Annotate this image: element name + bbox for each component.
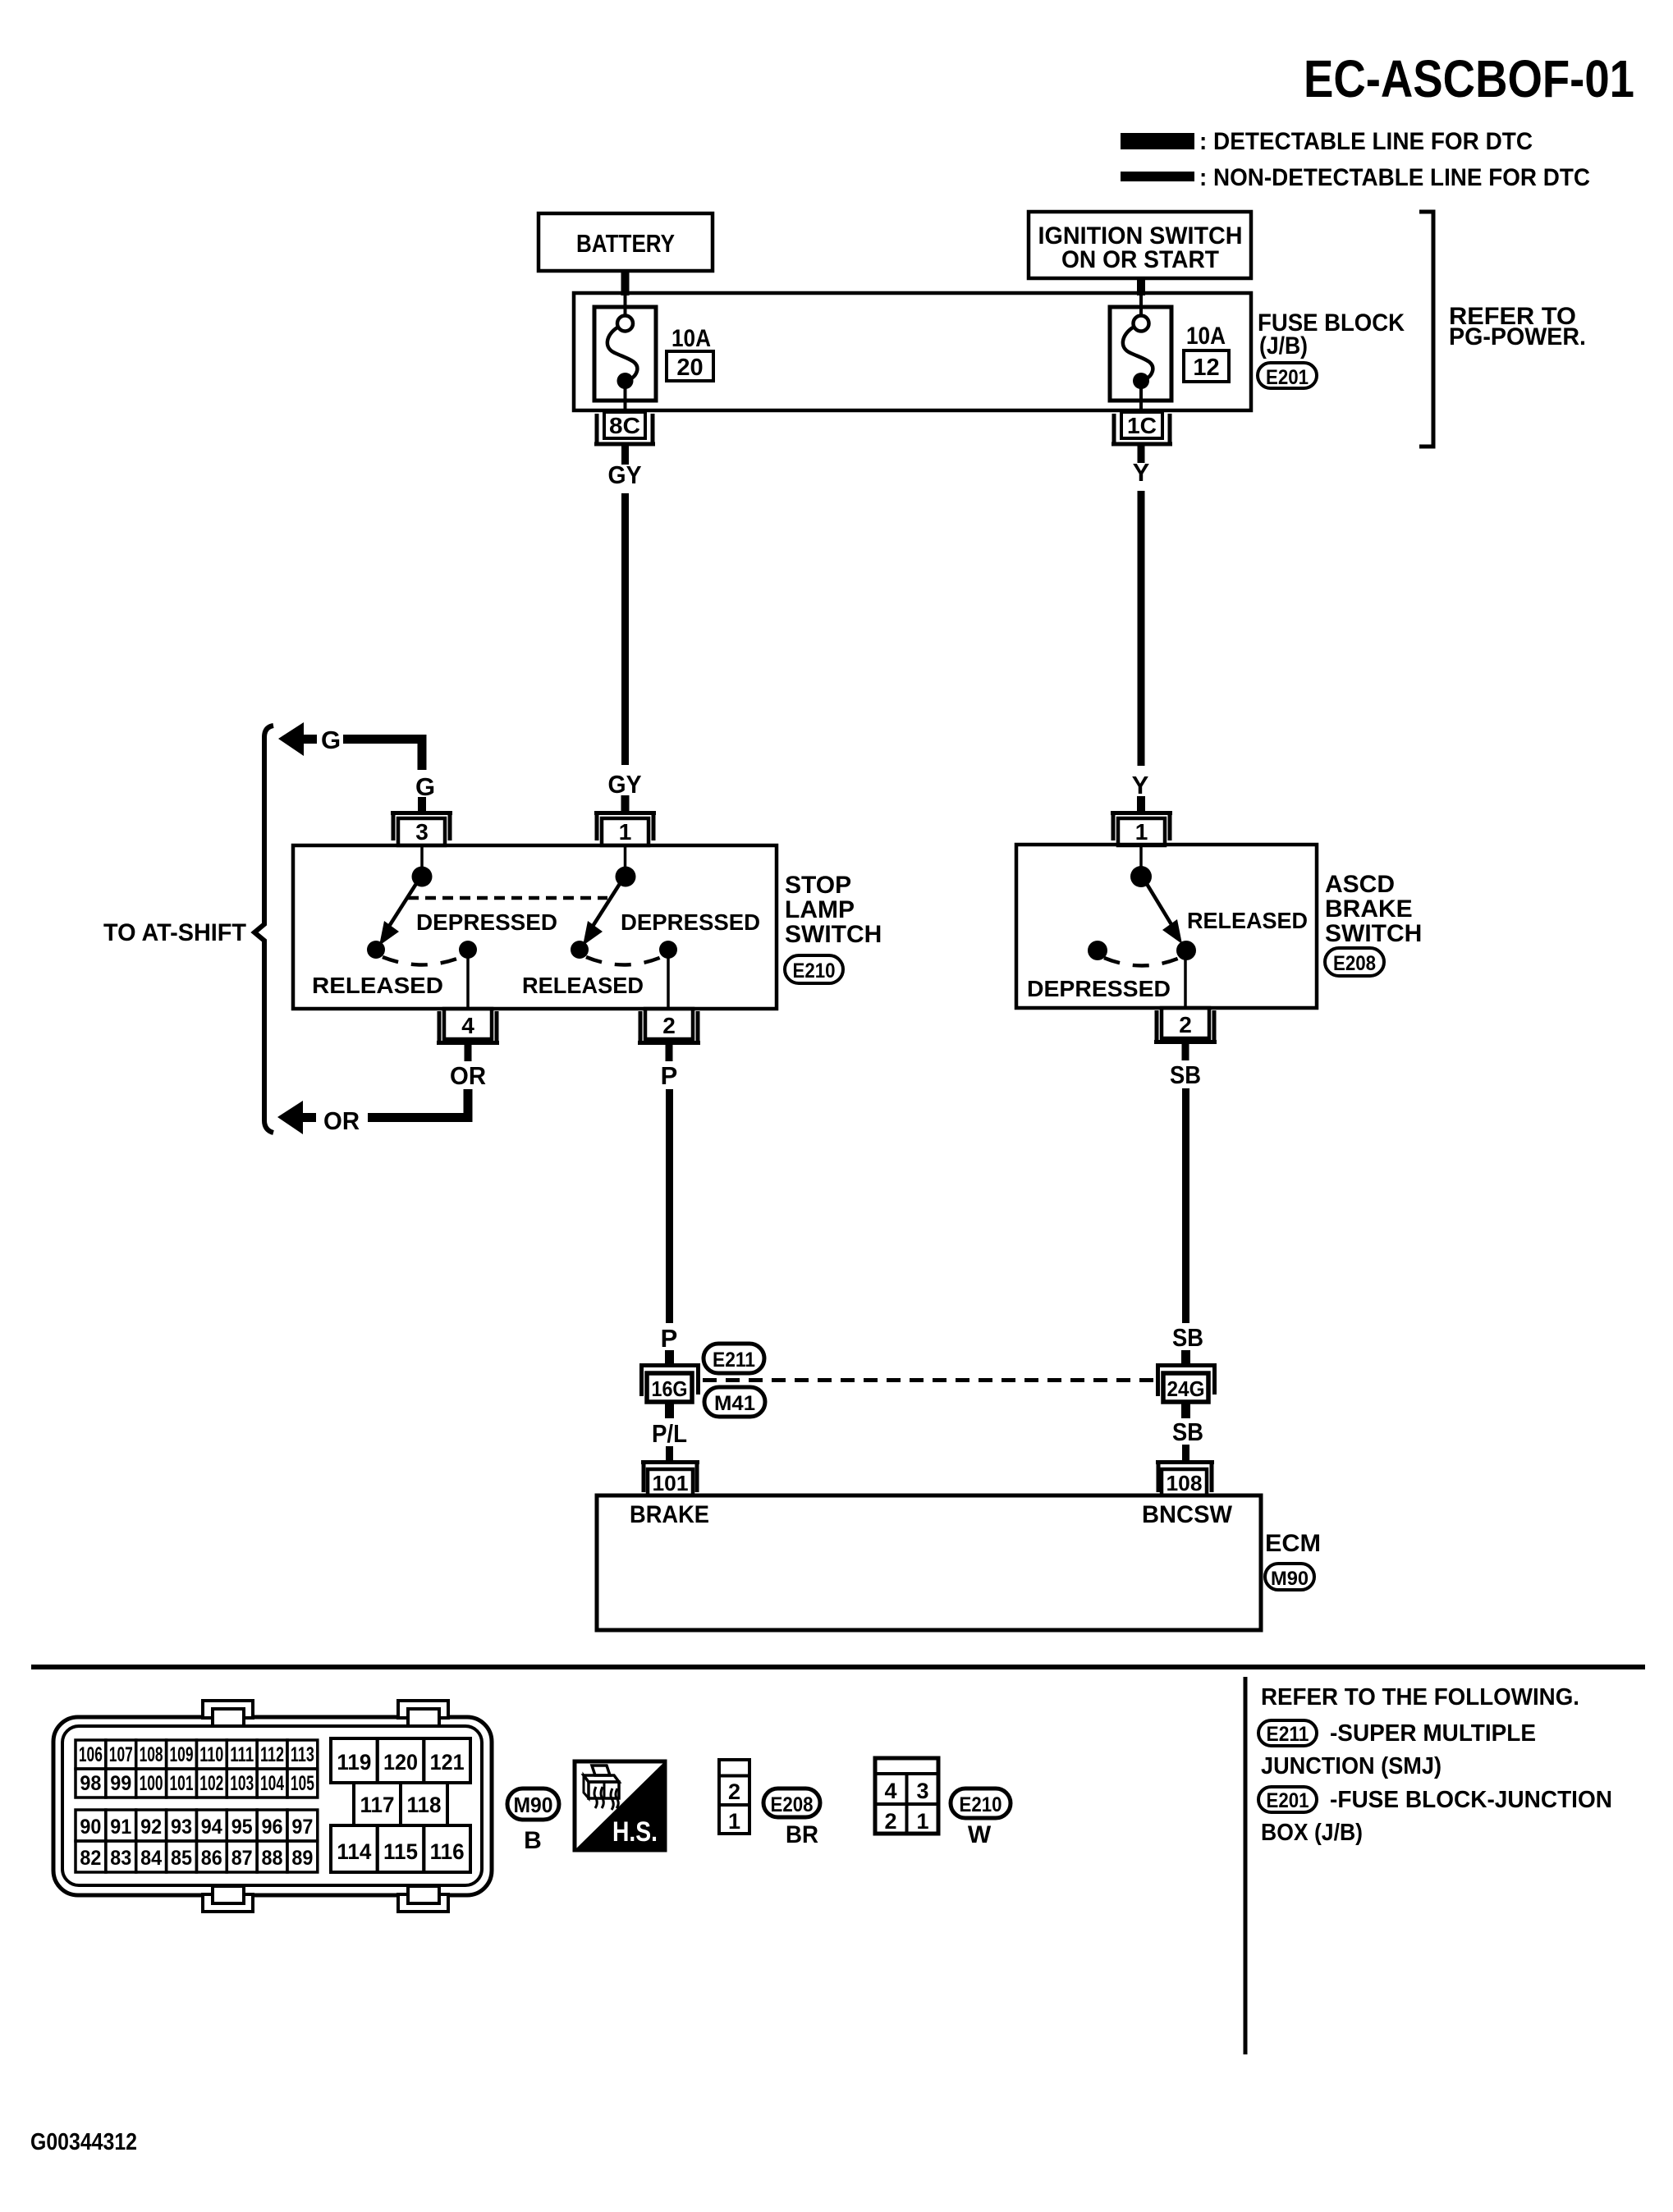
connector ref E210 oval	[785, 955, 843, 983]
svg-text:REFER TO THE FOLLOWING.: REFER TO THE FOLLOWING.	[1261, 1684, 1579, 1711]
fuse 12 S-curve	[1123, 327, 1153, 381]
svg-text:BRAKE: BRAKE	[630, 1501, 709, 1528]
svg-text:ON OR START: ON OR START	[1061, 246, 1219, 273]
connector pin 101 cup	[641, 1462, 699, 1492]
svg-text:-SUPER MULTIPLE: -SUPER MULTIPLE	[1330, 1720, 1536, 1747]
svg-text:116: 116	[430, 1839, 465, 1864]
ECM connector pin row 98-105	[76, 1769, 106, 1798]
fuse 12 wire out	[1139, 381, 1143, 412]
connector pin 101 box	[648, 1469, 693, 1495]
svg-text:SWITCH: SWITCH	[785, 921, 882, 948]
ECM connector drawing: outer shell	[53, 1717, 492, 1895]
connector pin 2 cup (ASCD)	[1154, 1010, 1217, 1042]
svg-text:86: 86	[201, 1847, 222, 1870]
svg-text:BOX (J/B): BOX (J/B)	[1261, 1820, 1363, 1846]
svg-text:115: 115	[383, 1839, 418, 1864]
connector ref E201 oval	[1258, 363, 1317, 388]
stop lamp switch: common dot right	[616, 867, 636, 887]
svg-text:P/L: P/L	[652, 1419, 687, 1448]
wire P stub below pin 2	[666, 1043, 673, 1061]
svg-text:(J/B): (J/B)	[1259, 332, 1308, 360]
connector 8C box	[604, 412, 645, 438]
connector pin 1 cup (stop lamp)	[594, 813, 656, 840]
svg-text:RELEASED: RELEASED	[312, 973, 443, 998]
svg-text:97: 97	[291, 1816, 313, 1839]
svg-text:BATTERY: BATTERY	[576, 229, 675, 258]
vertical divider line	[1244, 1677, 1248, 2054]
svg-text:4: 4	[884, 1779, 896, 1803]
svg-text:-FUSE BLOCK-JUNCTION: -FUSE BLOCK-JUNCTION	[1330, 1787, 1612, 1813]
svg-text:2: 2	[662, 1013, 676, 1038]
svg-text:SWITCH: SWITCH	[1325, 920, 1422, 947]
ASCD brake switch box	[1016, 845, 1317, 1008]
ECM connector tab bottom-left	[203, 1894, 253, 1912]
wire battery to fuse block (thick)	[621, 271, 630, 295]
arrow OR to AT-SHIFT	[277, 1101, 303, 1134]
SMJ dashed line 16G to 24G	[703, 1378, 1155, 1382]
svg-text:E210: E210	[793, 959, 836, 982]
svg-text:8C: 8C	[609, 413, 640, 438]
stop lamp switch: lead to pin 4	[466, 957, 470, 1009]
connector 1C box	[1121, 412, 1162, 438]
svg-text:108: 108	[1167, 1471, 1203, 1495]
ECM connector drawing: inner shell	[62, 1726, 482, 1885]
svg-text:16G: 16G	[652, 1376, 688, 1401]
wire SB stub below 24G	[1181, 1402, 1190, 1418]
arrow G to AT-SHIFT	[278, 722, 304, 756]
wire GY stub below 8C	[621, 444, 629, 465]
fuse 20 wire out	[624, 381, 627, 412]
stop lamp switch: right released contact dot	[571, 941, 589, 959]
svg-text:SB: SB	[1170, 1060, 1201, 1089]
ECM connector tab top-right	[398, 1701, 448, 1718]
svg-text:1: 1	[728, 1809, 740, 1834]
brace TO AT-SHIFT	[254, 726, 273, 1133]
stop lamp switch: lead from pin 1	[624, 845, 627, 868]
svg-text:98: 98	[80, 1772, 101, 1795]
wire G (thick L)	[343, 740, 422, 771]
ECM connector pin row 82-89	[76, 1841, 106, 1872]
wire SB stub to 24G	[1181, 1350, 1190, 1366]
wire G stub to pin 3	[418, 797, 426, 812]
ASCD switch: lead to pin 2	[1184, 958, 1187, 1008]
connector 16G box	[647, 1373, 692, 1402]
ECM connector tab bottom-right	[398, 1894, 448, 1912]
connector 24G box	[1163, 1373, 1208, 1402]
fuse 20 bottom dot	[617, 373, 634, 389]
stop lamp switch: right depressed contact dot	[659, 941, 677, 959]
svg-text:92: 92	[140, 1816, 162, 1839]
fuse 20 top circle	[617, 316, 633, 332]
svg-text:E211: E211	[713, 1349, 755, 1372]
fuse 12 top circle	[1134, 316, 1149, 332]
svg-text:90: 90	[80, 1816, 101, 1839]
svg-text:H.S.: H.S.	[612, 1816, 658, 1848]
wire P/L stub below 16G	[665, 1402, 674, 1418]
svg-text:93: 93	[171, 1816, 192, 1839]
svg-text:G: G	[415, 772, 435, 801]
svg-text:GY: GY	[608, 770, 642, 799]
stop lamp switch: right dashed arc	[586, 957, 662, 965]
svg-text:PG-POWER.: PG-POWER.	[1449, 323, 1586, 350]
svg-text:100: 100	[140, 1772, 163, 1795]
legend detectable bar	[1121, 133, 1194, 149]
stop lamp switch: lead from pin 3	[420, 845, 424, 868]
connector 16G bracket	[639, 1365, 700, 1396]
svg-text:STOP: STOP	[785, 872, 851, 899]
svg-text:JUNCTION (SMJ): JUNCTION (SMJ)	[1261, 1753, 1442, 1779]
wire P stub to 16G	[665, 1350, 674, 1366]
svg-text:1C: 1C	[1127, 413, 1157, 438]
connector ref E211 oval (note)	[1258, 1720, 1317, 1746]
svg-text:ECM: ECM	[1265, 1530, 1321, 1557]
stop lamp switch: left depressed contact dot	[459, 941, 477, 959]
svg-text:2: 2	[728, 1779, 740, 1804]
svg-text:108: 108	[140, 1743, 163, 1766]
connector pin 1 box (ASCD)	[1118, 818, 1165, 845]
svg-text:102: 102	[199, 1772, 223, 1795]
svg-text:121: 121	[430, 1750, 465, 1775]
svg-text:101: 101	[170, 1772, 194, 1795]
stop lamp switch: mechanical link dashed	[408, 896, 607, 900]
svg-text:DEPRESSED: DEPRESSED	[621, 909, 760, 935]
connector pin 108 cup	[1156, 1462, 1214, 1492]
connector ref M41 oval	[704, 1387, 765, 1417]
connector pin 2 box (ASCD)	[1162, 1008, 1209, 1038]
svg-text:88: 88	[262, 1847, 283, 1870]
svg-text:B: B	[524, 1827, 542, 1854]
svg-text:2: 2	[1179, 1012, 1192, 1037]
svg-text:DEPRESSED: DEPRESSED	[416, 909, 557, 935]
svg-text:111: 111	[230, 1743, 254, 1766]
ASCD switch: lead from pin 1	[1139, 845, 1143, 868]
stop lamp switch: left dashed arc	[383, 957, 461, 965]
fuse 12 number box	[1184, 350, 1229, 382]
ASCD switch: common dot	[1130, 866, 1152, 887]
svg-text:M41: M41	[714, 1392, 755, 1415]
svg-text:TO AT-SHIFT: TO AT-SHIFT	[103, 919, 246, 946]
H.S. logo connector icon	[592, 1765, 610, 1775]
connector 1C cup	[1112, 414, 1172, 444]
wire Y stub to pin 1	[1137, 796, 1145, 812]
svg-text:99: 99	[110, 1772, 131, 1795]
svg-text:E201: E201	[1266, 366, 1309, 389]
connector ref E208 oval	[1325, 948, 1384, 976]
svg-text:4: 4	[461, 1013, 474, 1038]
svg-text:BR: BR	[786, 1821, 818, 1848]
H.S. logo black triangle	[575, 1761, 665, 1850]
fuse block (J/B) outline	[574, 293, 1251, 410]
svg-text:110: 110	[199, 1743, 223, 1766]
connector 8C cup	[594, 414, 655, 444]
svg-text:P: P	[661, 1061, 678, 1090]
connector ref E201 oval (note)	[1258, 1787, 1317, 1812]
wire OR (thick L)	[368, 1089, 468, 1118]
svg-text:GY: GY	[608, 460, 642, 489]
stop lamp switch: left released contact dot	[367, 941, 385, 959]
bracket refer to pg-power	[1419, 212, 1433, 447]
svg-text:2: 2	[884, 1809, 896, 1834]
ECM connector pin row 119-121	[331, 1738, 378, 1783]
svg-text:95: 95	[231, 1816, 253, 1839]
battery box	[539, 213, 713, 271]
connector pin 1 box (stop lamp)	[602, 818, 649, 845]
svg-text:W: W	[968, 1821, 992, 1848]
svg-text:G: G	[321, 726, 341, 754]
fuse 20 number box	[667, 351, 713, 381]
svg-text:1: 1	[1135, 819, 1148, 845]
fuse 20 S-curve	[607, 327, 638, 381]
svg-text:BRAKE: BRAKE	[1325, 895, 1413, 923]
connector pin 108 box	[1162, 1469, 1207, 1495]
svg-text:1: 1	[619, 819, 632, 845]
svg-text:109: 109	[170, 1743, 194, 1766]
svg-text:BNCSW: BNCSW	[1142, 1501, 1233, 1528]
wire SB long run	[1182, 1088, 1189, 1323]
svg-text:118: 118	[407, 1793, 442, 1817]
svg-text:E210: E210	[960, 1793, 1002, 1816]
fuse 12 box	[1110, 307, 1171, 401]
wire SB stub below pin 2	[1182, 1042, 1189, 1060]
svg-text:20: 20	[676, 355, 703, 381]
svg-text:E208: E208	[771, 1793, 814, 1816]
svg-text:112: 112	[260, 1743, 284, 1766]
svg-text:12: 12	[1193, 355, 1219, 381]
ignition switch box	[1029, 212, 1251, 278]
svg-text:OR: OR	[323, 1106, 360, 1135]
svg-text:M90: M90	[514, 1793, 553, 1817]
fuse 20 element: wire in	[624, 293, 627, 316]
svg-text:83: 83	[110, 1847, 131, 1870]
fuse 20 box	[594, 307, 656, 401]
svg-text:Y: Y	[1132, 771, 1149, 799]
connector E210 pin box (4/3/2/1)	[875, 1758, 938, 1834]
svg-text:1: 1	[916, 1809, 928, 1834]
wire GY stub to pin 1	[621, 795, 630, 812]
ASCD switch: dashed arc	[1104, 958, 1180, 966]
svg-text:LAMP: LAMP	[785, 896, 855, 923]
ECM box	[597, 1495, 1261, 1630]
svg-text:24G: 24G	[1167, 1376, 1205, 1401]
connector pin 3 box	[398, 818, 445, 845]
svg-text:G00344312: G00344312	[30, 2129, 137, 2155]
svg-text:SB: SB	[1172, 1323, 1203, 1352]
fuse 12 element: wire in	[1139, 293, 1143, 316]
stop lamp switch: right arm with arrow	[592, 880, 622, 927]
ECM connector pin row 106-113	[76, 1740, 106, 1769]
svg-text:119: 119	[337, 1750, 371, 1775]
wire P/L stub to 101	[666, 1446, 673, 1462]
H.S. logo square	[575, 1761, 665, 1850]
stop lamp switch: left arm with arrow	[388, 880, 419, 927]
svg-text:120: 120	[383, 1750, 418, 1775]
connector 24G bracket	[1156, 1365, 1217, 1396]
connector pin 1 cup (ASCD)	[1111, 813, 1172, 840]
svg-text:10A: 10A	[1186, 323, 1226, 350]
ECM connector pin row 117-118	[354, 1783, 401, 1825]
svg-text:114: 114	[337, 1839, 371, 1864]
connector ref E211 oval	[704, 1344, 764, 1373]
svg-text:96: 96	[262, 1816, 283, 1839]
ECM connector pin row 114-116	[331, 1825, 378, 1872]
svg-text:101: 101	[653, 1471, 689, 1495]
ECM connector tab top-left	[203, 1701, 253, 1718]
svg-text:94: 94	[201, 1816, 222, 1839]
connector E208 pin box (2/1)	[719, 1760, 749, 1834]
svg-text:87: 87	[231, 1847, 253, 1870]
connector ref E208 oval (bottom)	[763, 1788, 820, 1817]
horizontal separator line	[31, 1665, 1645, 1669]
legend non-detectable bar	[1121, 172, 1194, 181]
svg-text:: DETECTABLE LINE FOR DTC: : DETECTABLE LINE FOR DTC	[1199, 128, 1533, 155]
connector pin 3 cup	[391, 813, 452, 840]
connector pin 4 box	[444, 1009, 492, 1039]
stop lamp switch: common dot left	[412, 867, 433, 887]
connector ref E210 oval (bottom)	[951, 1788, 1011, 1818]
fuse 12 bottom dot	[1133, 373, 1149, 389]
wire P long run	[666, 1089, 673, 1323]
svg-text:89: 89	[291, 1847, 313, 1870]
svg-text:91: 91	[110, 1816, 131, 1839]
svg-text:M90: M90	[1271, 1568, 1309, 1590]
svg-text:RELEASED: RELEASED	[1187, 908, 1308, 933]
stop lamp switch box	[293, 845, 777, 1009]
svg-text:105: 105	[291, 1772, 314, 1795]
svg-text:85: 85	[171, 1847, 192, 1870]
svg-text:OR: OR	[450, 1061, 486, 1090]
connector ref M90 oval	[1265, 1564, 1314, 1590]
svg-text:82: 82	[80, 1847, 101, 1870]
svg-text:E208: E208	[1333, 952, 1376, 975]
svg-text:113: 113	[291, 1743, 314, 1766]
ASCD switch: released contact dot	[1176, 941, 1196, 960]
svg-text:E201: E201	[1267, 1789, 1309, 1812]
svg-text:10A: 10A	[671, 325, 711, 352]
svg-text:SB: SB	[1172, 1417, 1203, 1446]
svg-text:P: P	[661, 1324, 678, 1353]
wire GY long run	[621, 493, 629, 765]
svg-text:106: 106	[79, 1743, 103, 1766]
wire OR stub below pin 4	[465, 1043, 472, 1061]
stop lamp switch: lead to pin 2	[667, 957, 670, 1009]
wire ignition to fuse block (thick)	[1137, 278, 1145, 295]
svg-text:EC-ASCBOF-01: EC-ASCBOF-01	[1304, 49, 1634, 108]
svg-text:84: 84	[140, 1847, 162, 1870]
connector pin 2 box (stop lamp)	[645, 1009, 693, 1039]
svg-text:3: 3	[415, 819, 429, 845]
svg-text:103: 103	[230, 1772, 254, 1795]
svg-text:104: 104	[260, 1772, 284, 1795]
svg-text:117: 117	[360, 1793, 395, 1817]
svg-text:Y: Y	[1133, 458, 1150, 487]
svg-text:DEPRESSED: DEPRESSED	[1027, 976, 1171, 1001]
ASCD switch: arm with arrow	[1144, 880, 1172, 926]
wire Y long run	[1138, 491, 1145, 766]
svg-text:E211: E211	[1267, 1723, 1309, 1746]
connector pin 4 cup	[437, 1011, 499, 1043]
ASCD switch: depressed contact dot	[1088, 941, 1107, 960]
svg-text:107: 107	[109, 1743, 133, 1766]
wire Y stub below 1C	[1138, 444, 1145, 463]
ECM connector pin row 90-97	[76, 1810, 106, 1841]
svg-text:3: 3	[916, 1779, 928, 1803]
connector pin 2 cup (stop lamp)	[638, 1011, 700, 1043]
connector ref M90 oval (bottom)	[507, 1788, 559, 1820]
svg-text:ASCD: ASCD	[1325, 871, 1395, 898]
svg-text:RELEASED: RELEASED	[522, 973, 644, 998]
wire SB stub to 108	[1182, 1445, 1189, 1462]
svg-text:: NON-DETECTABLE LINE FOR DTC: : NON-DETECTABLE LINE FOR DTC	[1199, 164, 1590, 191]
